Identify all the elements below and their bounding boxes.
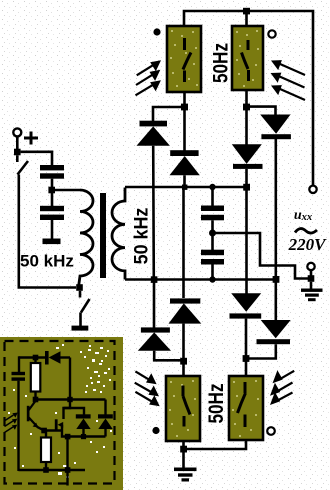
node junction lower rail right end bbox=[273, 276, 280, 283]
node control dot of K3 bbox=[152, 427, 159, 434]
transformer T1 primary winding bbox=[79, 190, 94, 287]
node junction on top bus above K2 bbox=[243, 8, 250, 15]
wire mid node down to C4 bbox=[211, 233, 214, 250]
wire down to inset bottom rail bbox=[66, 437, 68, 471]
node junction at + bbox=[14, 149, 21, 156]
node junction upper rail / VD2 column bbox=[182, 185, 187, 190]
wire R2 bottom stub bbox=[45, 462, 47, 471]
svg-text:220V: 220V bbox=[288, 235, 328, 254]
svg-text:50 kHz: 50 kHz bbox=[20, 252, 74, 271]
node control dot of K1 bbox=[153, 28, 160, 35]
terminal bar under C2 bbox=[43, 239, 61, 245]
wire K4 bottom to junction bbox=[187, 440, 246, 449]
capacitor C3 bbox=[201, 206, 224, 221]
inset background (optorelay internals) bbox=[0, 337, 123, 490]
wire emitter node to MOSFET source bbox=[44, 429, 62, 431]
wire upper rail bbox=[125, 186, 247, 189]
node junction R1 bottom bbox=[33, 397, 39, 403]
node junction VD7/VD8 bbox=[243, 355, 250, 362]
svg-text:50 kHz: 50 kHz bbox=[130, 208, 152, 265]
wire R1 bottom stub bbox=[34, 392, 36, 400]
capacitor C5 bbox=[12, 372, 26, 381]
wire VD6 anode down to junction bbox=[182, 324, 185, 361]
wire top bus from relay K1 over to right edge bbox=[184, 11, 313, 186]
phototransistor VT1 bbox=[27, 401, 38, 428]
label + sign bbox=[24, 132, 38, 145]
node output terminal lower (open circle) bbox=[307, 263, 314, 270]
diode VD9 (left-pointing, on inset top rail) bbox=[45, 351, 61, 365]
wire inset output stub down bbox=[66, 470, 68, 486]
wire VD2 column through to lower diodes bbox=[182, 189, 185, 298]
label ~ (AC) bbox=[295, 229, 317, 233]
LED light arrows into K3 bbox=[135, 371, 154, 402]
node junction gate feed bbox=[67, 397, 72, 402]
wire K2 bottom to junction bbox=[245, 90, 248, 107]
wire from + junction to C1 bbox=[21, 152, 52, 166]
switch SA1 (input) bbox=[17, 155, 28, 174]
wire gate step-down bbox=[64, 400, 71, 420]
ground symbol right bbox=[301, 282, 323, 301]
wire mid node to output terminal (stepped) bbox=[213, 233, 309, 279]
ground symbol bottom bbox=[174, 452, 197, 482]
node junction lower rail / VD1 column bbox=[151, 276, 158, 283]
wire VD1 anode down across upper rail to lower rail bbox=[152, 146, 155, 280]
wire junction down to VD2 bbox=[183, 110, 186, 151]
diode VD1 (up) bbox=[137, 121, 170, 146]
node DC input terminal + bbox=[13, 128, 21, 136]
wire inset top rail bbox=[19, 356, 46, 358]
node junction R2 bottom on rail bbox=[43, 467, 49, 473]
diode VD8 (down) bbox=[257, 320, 291, 344]
wire lower rail bbox=[125, 278, 276, 281]
wire lower rail to VD5 bbox=[153, 281, 156, 328]
capacitor C1 bbox=[40, 165, 64, 179]
node control terminal circle of K2 bbox=[268, 30, 275, 37]
wire C1 to junction bbox=[51, 179, 54, 190]
LED light arrows into K4 bbox=[276, 371, 294, 402]
transformer T1 core bbox=[100, 193, 106, 278]
optorelay box K1 (top-left, 50Hz) bbox=[167, 26, 201, 92]
wire terminal stub bbox=[310, 270, 313, 279]
optorelay box K3 (bottom-left, 50Hz) bbox=[166, 376, 200, 441]
wire stub to K2 top bbox=[245, 11, 248, 26]
wire junction down to K3 bbox=[182, 361, 185, 376]
node junction upper rail / C3 bbox=[209, 184, 215, 190]
switch contact inside K4 bbox=[238, 382, 246, 427]
wire from + terminal down bbox=[16, 137, 19, 150]
capacitor C2 bbox=[40, 206, 64, 220]
wire VD8 cathode down and left to junction bbox=[249, 344, 276, 358]
wire left loop down bbox=[19, 175, 76, 288]
wire VD8 column from lower rail end bbox=[274, 281, 277, 321]
wire source to diode pair bbox=[62, 425, 106, 437]
resistor R2 bbox=[41, 438, 51, 463]
wire diode feed step bbox=[64, 408, 85, 415]
diode VD10 (up) bbox=[76, 414, 91, 436]
node junction under diodes bbox=[65, 434, 71, 440]
node junction R2 top bbox=[41, 428, 47, 434]
diode VD3 (down) bbox=[232, 144, 263, 169]
diode VD6 (up) bbox=[169, 298, 202, 323]
wire C2 down bbox=[51, 220, 54, 239]
wire C3 to mid node bbox=[211, 220, 214, 233]
transformer T1 secondary winding bbox=[112, 188, 125, 280]
MOSFET VT2 channel bar bbox=[55, 419, 58, 431]
resistor R1 bbox=[31, 363, 41, 392]
node junction upper rail right end bbox=[243, 184, 250, 191]
svg-text:50Hz: 50Hz bbox=[209, 43, 233, 83]
LED light arrows into K1 bbox=[136, 64, 156, 95]
switch contact inside K3 bbox=[183, 386, 190, 427]
node junction primary bottom bbox=[76, 284, 83, 291]
node junction left diode / bottom wire bbox=[81, 434, 86, 439]
wire VD5 anode down and right bbox=[154, 351, 183, 361]
node control terminal circle of K4 bbox=[267, 427, 275, 435]
switch contact inside K1 bbox=[183, 38, 191, 82]
wire left column down bbox=[17, 381, 19, 471]
wire corner down right side bbox=[69, 358, 71, 400]
wire junction to primary top bbox=[52, 189, 80, 192]
node junction R1 top bbox=[33, 355, 39, 361]
node junction lower rail / C4 bbox=[209, 276, 215, 282]
diode VD2 (up) bbox=[170, 150, 200, 175]
wire upper rail to C3 bbox=[211, 187, 214, 206]
wire emitter to R2 junction bbox=[37, 427, 44, 431]
diode VD4 (down) bbox=[260, 115, 291, 140]
node junction under K3 bbox=[180, 446, 187, 453]
wire VD4 cathode long column down to lower rail end bbox=[274, 139, 277, 278]
wire K3 bottom stub bbox=[182, 441, 185, 449]
switch SA2 under transformer bbox=[80, 291, 90, 326]
wire right column rail end down to lower diode VD7 bbox=[245, 189, 248, 294]
diode VD11 (up) bbox=[98, 400, 113, 437]
node junction C1/C2/primary bbox=[48, 187, 55, 194]
LED light arrows into K2 bbox=[277, 63, 305, 100]
wire junction down to C2 bbox=[51, 193, 54, 206]
node junction under K1 bbox=[181, 104, 188, 111]
wire top rail right of VD9 bbox=[61, 356, 71, 358]
wire junction down to K4 bbox=[245, 361, 248, 376]
wire junction down to VD3 bbox=[245, 110, 248, 145]
terminal bar under SA2 bbox=[72, 326, 89, 331]
diode VD7 (down) bbox=[230, 293, 262, 318]
svg-text:50Hz: 50Hz bbox=[204, 383, 228, 423]
inset white speckle patches bbox=[8, 344, 112, 478]
wire VD7 cathode down to junction bbox=[245, 319, 248, 359]
node junction VD5/VD6 bbox=[180, 358, 187, 365]
node junction rail / output stub bbox=[65, 467, 71, 473]
wire C4 to lower rail bbox=[211, 265, 214, 280]
node output terminal upper (open circle) bbox=[309, 186, 316, 193]
inset dashed border bbox=[5, 341, 115, 484]
node junction capacitor midpoint bbox=[209, 230, 216, 237]
wire junction left to VD1 bbox=[153, 107, 185, 121]
node junction under K2 bbox=[243, 104, 250, 111]
optorelay box K2 (top-right, 50Hz) bbox=[232, 26, 263, 90]
wire gate feed horizontal bbox=[36, 398, 106, 400]
diode VD5 (up) bbox=[138, 327, 171, 350]
wire VD3 cathode to upper rail end junction bbox=[245, 169, 248, 187]
wire VD2 anode to upper rail bbox=[183, 175, 186, 187]
wire junction right to VD4 bbox=[247, 107, 276, 115]
switch contact inside K2 bbox=[242, 40, 249, 81]
wire R2 top stub bbox=[45, 431, 47, 438]
wire R1 top stub bbox=[34, 358, 36, 364]
wire corner left down to C5 bbox=[18, 356, 20, 372]
capacitor C4 bbox=[201, 250, 224, 265]
optorelay box K4 (bottom-right, 50Hz) bbox=[229, 376, 263, 440]
wire K1 bottom to junction bbox=[183, 92, 186, 107]
MOSFET VT2 source arrow bbox=[58, 422, 64, 428]
light arrows into VT1 bbox=[5, 415, 14, 433]
node junction output terminal bbox=[308, 275, 315, 282]
wire inset bottom rail bbox=[19, 469, 86, 471]
